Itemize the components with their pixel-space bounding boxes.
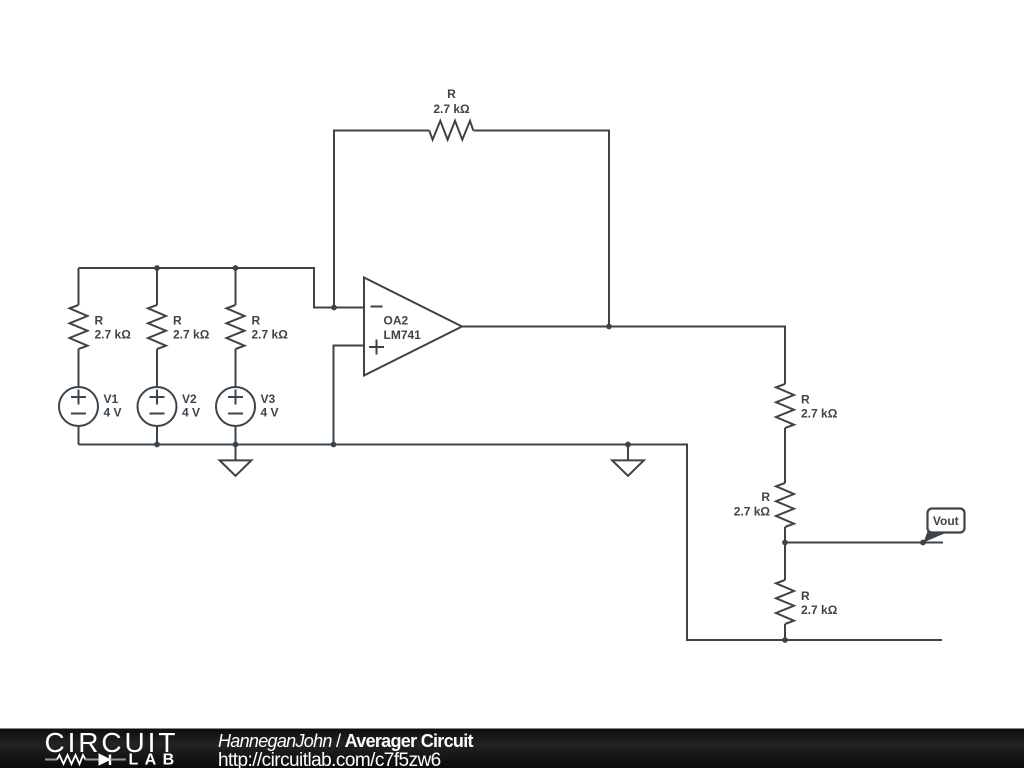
svg-text:2.7 kΩ: 2.7 kΩ — [173, 328, 210, 342]
svg-text:2.7 kΩ: 2.7 kΩ — [734, 505, 771, 519]
wire — [235, 426, 237, 445]
node (Vout junction) — [782, 540, 788, 546]
svg-text:2.7 kΩ: 2.7 kΩ — [433, 102, 470, 116]
svg-text:R: R — [447, 87, 456, 101]
node (ground bus junction) — [154, 442, 160, 448]
wire — [156, 349, 158, 387]
wire — [784, 527, 786, 580]
wire — [79, 268, 365, 308]
node (junction V2 top) — [154, 265, 160, 271]
svg-text:2.7 kΩ: 2.7 kΩ — [801, 603, 838, 617]
resistor R chain-top 2.7 k ohm — [776, 384, 794, 428]
wire — [473, 131, 609, 327]
node (feedback/output junction) — [606, 324, 612, 330]
wire — [235, 268, 237, 305]
svg-text:R: R — [95, 314, 104, 328]
svg-text:HanneganJohn / Averager Circui: HanneganJohn / Averager Circuit — [218, 731, 474, 751]
node (ground bus junction) — [625, 442, 631, 448]
ground — [612, 445, 644, 476]
svg-text:R: R — [801, 589, 810, 603]
svg-text:OA2: OA2 — [384, 314, 409, 328]
resistor R V3-column 2.7 k ohm — [227, 305, 245, 349]
wire — [78, 349, 80, 387]
wire — [785, 542, 943, 544]
node (junction bottom rail) — [782, 637, 788, 643]
wire — [462, 327, 785, 385]
wire — [156, 268, 158, 305]
svg-text:LM741: LM741 — [384, 328, 422, 342]
node (ground bus junction) — [331, 442, 337, 448]
svg-text:V1: V1 — [104, 392, 119, 406]
resistor R V1-column 2.7 k ohm — [70, 305, 88, 349]
op-amp OA2 LM741 — [364, 278, 462, 376]
svg-text:R: R — [173, 314, 182, 328]
resistor R chain-bottom 2.7 k ohm — [776, 580, 794, 624]
svg-text:Vout: Vout — [933, 514, 959, 528]
node (inverting input junction) — [331, 305, 337, 311]
wire — [334, 346, 365, 445]
svg-text:V3: V3 — [261, 392, 276, 406]
wire — [156, 426, 158, 445]
svg-text:2.7 kΩ: 2.7 kΩ — [252, 328, 289, 342]
voltage source V3 4 V — [216, 387, 255, 426]
svg-text:R: R — [801, 393, 810, 407]
resistor R chain-middle 2.7 k ohm — [776, 483, 794, 527]
resistor R V2-column 2.7 k ohm — [148, 305, 166, 349]
svg-text:R: R — [761, 490, 770, 504]
svg-text:4 V: 4 V — [182, 406, 200, 420]
ground — [220, 445, 252, 476]
CircuitLab logo resistor-diode symbol — [45, 754, 126, 765]
wire — [784, 428, 786, 483]
svg-text:http://circuitlab.com/c7f5zw6: http://circuitlab.com/c7f5zw6 — [218, 750, 441, 768]
voltage source V2 4 V — [138, 387, 177, 426]
wire — [79, 445, 943, 641]
wire — [784, 624, 786, 640]
svg-text:R: R — [252, 314, 261, 328]
svg-text:V2: V2 — [182, 392, 197, 406]
resistor R (feedback) 2.7 k ohm — [429, 121, 473, 140]
node (junction V3 top) — [233, 265, 239, 271]
wire — [78, 268, 80, 305]
voltage source V1 4 V — [59, 387, 98, 426]
svg-text:2.7 kΩ: 2.7 kΩ — [95, 328, 132, 342]
node (ground bus junction) — [233, 442, 239, 448]
svg-text:4 V: 4 V — [261, 406, 279, 420]
svg-text:4 V: 4 V — [104, 406, 122, 420]
svg-text:LAB: LAB — [129, 752, 181, 768]
node (Vout tap) — [920, 540, 926, 546]
svg-text:2.7 kΩ: 2.7 kΩ — [801, 407, 838, 421]
node Vout flag — [924, 509, 965, 543]
wire — [334, 131, 429, 308]
wire — [235, 349, 237, 387]
wire — [78, 426, 80, 445]
